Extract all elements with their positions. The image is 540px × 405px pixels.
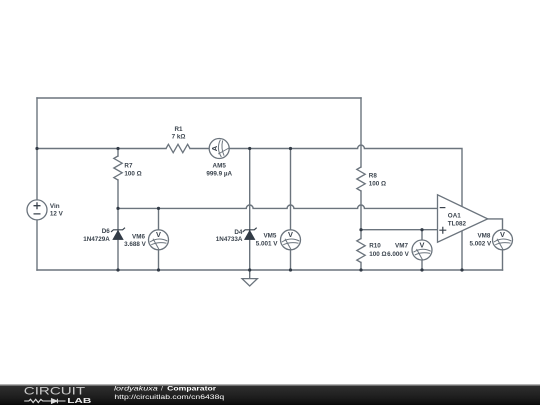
resistor R1 — [166, 144, 190, 152]
svg-text:http://circuitlab.com/cn6438q: http://circuitlab.com/cn6438q — [114, 394, 224, 401]
ammeter AM5 — [209, 139, 229, 159]
wire top rail — [37, 97, 361, 99]
svg-text:5.001 V: 5.001 V — [256, 241, 279, 248]
node right rail bottom — [460, 268, 463, 271]
wire second rail right (hop over x=361) — [190, 145, 462, 270]
svg-text:12 V: 12 V — [50, 211, 64, 218]
zener diode D6 — [111, 228, 125, 240]
wire D6 branch — [117, 208, 119, 270]
svg-text:V: V — [288, 230, 293, 239]
svg-text:D6: D6 — [102, 228, 111, 235]
ground — [242, 279, 257, 286]
wire VM7 branch — [421, 230, 423, 270]
node VM7 top — [420, 228, 423, 231]
svg-text:V: V — [156, 230, 161, 239]
wire VM6 branch — [158, 208, 160, 270]
node D6 bottom — [116, 268, 119, 271]
resistor R8 — [357, 167, 365, 191]
node R7 D6 junction — [116, 207, 119, 210]
svg-text:5.002 V: 5.002 V — [469, 241, 492, 248]
node VM5 top — [289, 147, 292, 150]
CircuitLab logo resistor-diode glyph — [24, 399, 65, 404]
wire op-amp output to VM8 — [488, 219, 503, 270]
svg-text:A: A — [210, 145, 219, 151]
voltmeter VM5 — [281, 230, 301, 250]
op-amp OA1 — [438, 195, 488, 242]
svg-text:LAB: LAB — [67, 396, 91, 405]
footer banner — [0, 384, 540, 405]
svg-text:VM5: VM5 — [263, 233, 276, 240]
svg-text:AM5: AM5 — [213, 163, 227, 170]
svg-text:6.000 V: 6.000 V — [387, 251, 410, 258]
wire D4 branch — [249, 149, 251, 271]
voltmeter VM6 — [149, 230, 169, 250]
svg-text:VM6: VM6 — [132, 234, 145, 241]
resistor R10 — [357, 239, 365, 263]
svg-text:3.688 V: 3.688 V — [124, 241, 147, 248]
svg-text:999.9 µA: 999.9 µA — [206, 170, 232, 177]
node second rail / left rail — [35, 147, 38, 150]
voltmeter VM8 — [493, 230, 513, 250]
wire plus rail — [361, 229, 438, 231]
svg-text:VM7: VM7 — [395, 243, 408, 250]
node R10 bottom — [359, 268, 362, 271]
svg-text:V: V — [500, 230, 505, 239]
node VM6 top — [157, 207, 160, 210]
svg-text:Vin: Vin — [50, 203, 60, 210]
svg-text:100 Ω: 100 Ω — [369, 251, 386, 258]
node R7 top — [116, 147, 119, 150]
wire bottom rail — [37, 269, 503, 271]
svg-text:100 Ω: 100 Ω — [124, 170, 141, 177]
svg-text:D4: D4 — [234, 229, 243, 236]
svg-text:R10: R10 — [369, 243, 381, 250]
wire left rail (through Vin) — [36, 98, 38, 270]
zener diode D4 — [243, 228, 257, 240]
node ground junction — [248, 268, 251, 271]
svg-text:R7: R7 — [124, 162, 133, 169]
resistor R7 — [114, 156, 122, 180]
voltage source Vin — [27, 200, 47, 220]
wire R8 R10 branch — [360, 98, 362, 270]
svg-text:R8: R8 — [369, 172, 378, 179]
node D4 top — [248, 147, 251, 150]
node VM6 bottom — [157, 268, 160, 271]
svg-text:VM8: VM8 — [477, 233, 490, 240]
node VM5 bottom — [289, 268, 292, 271]
wire VM5 branch — [290, 149, 292, 271]
svg-text:1N4733A: 1N4733A — [216, 236, 243, 243]
wire second rail left — [37, 148, 166, 150]
wire middle rail (hops at 250,290.5,361) — [118, 205, 438, 208]
node R8 R10 junction — [359, 228, 362, 231]
svg-text:OA1: OA1 — [448, 213, 461, 220]
wire R7 branch — [117, 149, 119, 209]
svg-text:lordyakuxa/Comparator: lordyakuxa/Comparator — [114, 386, 217, 393]
svg-text:V: V — [420, 240, 425, 249]
svg-text:R1: R1 — [174, 126, 183, 133]
svg-text:TL082: TL082 — [448, 220, 467, 227]
svg-text:7 kΩ: 7 kΩ — [172, 134, 186, 141]
svg-text:1N4729A: 1N4729A — [83, 236, 110, 243]
wire ground stub — [249, 270, 251, 279]
node VM7 bottom — [420, 268, 423, 271]
svg-text:100 Ω: 100 Ω — [369, 181, 386, 188]
voltmeter VM7 — [412, 240, 432, 260]
